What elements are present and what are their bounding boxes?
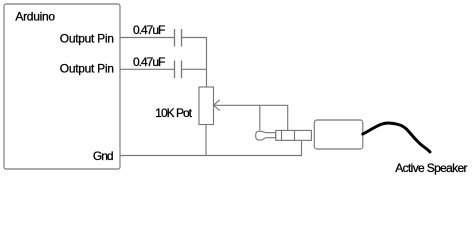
- wiper arrow of R1: [213, 100, 219, 111]
- wire output pin 1 to C1: [120, 37, 175, 39]
- wire wiper branch to plug tip: [259, 105, 261, 130]
- svg-text:Arduino: Arduino: [15, 10, 55, 24]
- svg-text:10K Pot: 10K Pot: [155, 106, 192, 120]
- svg-text:0.47uF: 0.47uF: [133, 55, 165, 69]
- svg-text:Output Pin: Output Pin: [60, 62, 114, 76]
- plug P1 tip bulb and taper: [256, 131, 276, 140]
- svg-text:Gnd: Gnd: [93, 149, 113, 163]
- svg-text:Output Pin: Output Pin: [60, 31, 114, 45]
- Arduino box U1: [4, 4, 120, 169]
- potentiometer R1 body: [199, 87, 214, 125]
- plug P1 barrel divider 1: [281, 130, 283, 140]
- svg-text:0.47uF: 0.47uF: [133, 23, 165, 37]
- speaker cable: [363, 123, 430, 152]
- capacitor C1: [175, 29, 182, 47]
- svg-text:Active Speaker: Active Speaker: [395, 161, 467, 175]
- capacitor C2: [175, 61, 182, 79]
- wire output pin 2 to C2: [120, 68, 175, 70]
- plug P1 barrel: [276, 130, 312, 140]
- wire C2 to junction node A: [182, 68, 207, 70]
- wire C1 to junction node A: [182, 38, 207, 88]
- speaker connector body: [314, 120, 363, 149]
- ground rail wire from Gnd pin: [120, 141, 302, 156]
- plug P1 barrel divider 2: [294, 130, 296, 140]
- wire wiper to plug ring: [213, 105, 287, 130]
- wire R1 bottom to ground rail: [205, 125, 207, 156]
